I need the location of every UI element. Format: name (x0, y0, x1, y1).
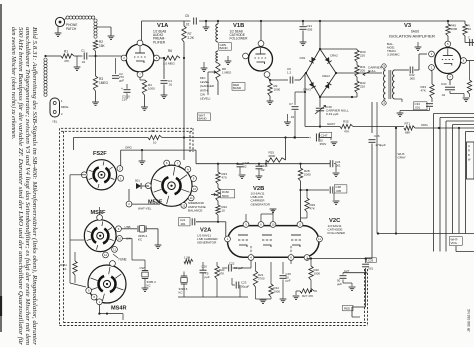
wire ring top to R chain (319, 48, 357, 50)
label wht band (197, 113, 210, 121)
svg-text:BAND: BAND (199, 117, 207, 121)
wire ring right to transformer (305, 72, 382, 74)
svg-text:ORG: ORG (421, 123, 429, 127)
pin V1B grid (243, 53, 249, 59)
resistor R33 (421, 70, 435, 102)
resistor R141 (60, 252, 77, 283)
label CR1 (300, 56, 306, 60)
capacitor C146 (237, 161, 250, 178)
wire b+ line (74, 136, 310, 138)
wire transformer bottom drop (377, 99, 395, 234)
diode D501 (129, 179, 148, 205)
label grn band (219, 43, 232, 51)
pin MS4R 1 (97, 299, 103, 305)
pins M53F (145, 160, 197, 208)
svg-text:.005: .005 (307, 27, 313, 31)
capacitor C23 (232, 278, 250, 297)
capacitor C31 (300, 20, 313, 46)
label CRA4 (322, 74, 330, 78)
tube V1B (249, 47, 273, 71)
svg-text:GRAY: GRAY (327, 122, 335, 126)
potentiometer R160 (211, 184, 235, 201)
svg-text:.005: .005 (336, 189, 342, 193)
ground below phone patch (55, 27, 62, 37)
tube V2 envelope (228, 226, 320, 258)
svg-text:C: C (468, 36, 470, 40)
resistor RT1 (404, 122, 415, 135)
resistor R1 (61, 50, 74, 64)
svg-text:ORG: ORG (125, 146, 133, 150)
capacitor C1 (81, 49, 87, 65)
svg-text:1.0 MEG: 1.0 MEG (163, 62, 176, 66)
svg-text:Bild 5.8.31: Aufbereitung des: Bild 5.8.31: Aufbereitung des SSB-Signal… (31, 27, 38, 346)
pin MS4F 12 (103, 252, 109, 258)
svg-text:CRA4: CRA4 (322, 74, 330, 78)
svg-text:350V: 350V (320, 142, 327, 146)
pin FS2F 2 (117, 166, 123, 172)
svg-text:MIKE: MIKE (61, 105, 68, 109)
wire pin8 drop (290, 260, 292, 264)
wire switch bus (196, 163, 330, 165)
svg-text:μμF: μμF (119, 78, 124, 82)
wire wht-yel (132, 203, 160, 205)
label mike pins (52, 99, 68, 124)
svg-text:2000: 2000 (274, 289, 281, 293)
pin V3 plate 5 (445, 41, 451, 47)
label C30 (326, 105, 349, 116)
switch FS2F (86, 160, 116, 190)
svg-text:FS2F: FS2F (93, 151, 107, 157)
filter box right edge (467, 142, 474, 179)
wire C29 junction to C27 (343, 272, 366, 274)
svg-text:1000: 1000 (314, 271, 321, 275)
svg-text:BAND: BAND (233, 86, 241, 90)
svg-text:.02: .02 (261, 168, 265, 172)
resistor R27 (293, 289, 317, 300)
svg-text:C27: C27 (344, 269, 350, 273)
svg-text:11: 11 (318, 237, 321, 241)
wire diamond top riser (319, 20, 321, 49)
wire pot bottom (208, 72, 218, 95)
svg-text:33: 33 (468, 27, 472, 31)
label phone patch (66, 23, 77, 31)
wire V3 pin5 stub (447, 41, 449, 44)
tube V3 (435, 48, 461, 74)
svg-text:+: + (309, 136, 311, 140)
svg-text:1500: 1500 (274, 87, 281, 91)
potentiometer R31 (355, 62, 366, 77)
svg-text:A: A (187, 167, 189, 171)
svg-text:CR1: CR1 (300, 56, 306, 60)
pin V1B cathode (264, 72, 270, 78)
pin V2 4 (248, 255, 254, 261)
label V1A (153, 23, 169, 44)
capacitor C26 (369, 134, 386, 147)
svg-text:68K: 68K (405, 131, 410, 135)
wire cw crystal top (123, 238, 146, 266)
svg-text:2.2K: 2.2K (188, 36, 195, 40)
label V2A (197, 228, 218, 245)
svg-text:47K: 47K (219, 271, 224, 275)
svg-text:μμF: μμF (286, 279, 291, 283)
wire v2a pins drop (226, 214, 246, 239)
pin V2 3 (304, 255, 310, 261)
svg-text:+: + (121, 87, 123, 91)
wire org from FS2F (121, 150, 196, 166)
svg-text:.01: .01 (441, 93, 446, 97)
label CRA3 (303, 88, 311, 92)
pin V3 6 (461, 58, 467, 64)
svg-text:.01: .01 (290, 115, 295, 119)
wire v2c cathode bus (307, 257, 372, 260)
ground under V2B label (261, 209, 276, 222)
pin V2 8 (288, 255, 294, 261)
resistor R29 (301, 189, 316, 218)
wire mike shield riser (44, 55, 61, 97)
wire V1A plate riser (141, 21, 143, 44)
svg-text:C22: C22 (229, 262, 235, 266)
capacitor C2 (112, 58, 124, 82)
connector MIKE (50, 98, 60, 117)
capacitor C4 (161, 57, 173, 99)
transformer T2 bal mod (382, 64, 395, 105)
label red band (232, 83, 245, 91)
pin V2 10 (270, 222, 276, 228)
pin V1A plate 6 (154, 55, 160, 61)
diode CRA3 (309, 82, 316, 88)
svg-text:V1A: V1A (157, 23, 169, 29)
wire gray bus (305, 127, 474, 130)
wire right nest f (466, 132, 474, 234)
pin V1A top (137, 40, 143, 46)
wire cathode to C6 (269, 79, 288, 81)
svg-text:1 MEG: 1 MEG (222, 70, 232, 74)
wire V3 plate right (466, 60, 474, 62)
label V2B (251, 186, 271, 206)
pin V2 5 (243, 222, 249, 228)
ground stub near C2 (74, 56, 81, 70)
label mic level (200, 76, 215, 101)
svg-text:10: 10 (193, 187, 197, 191)
label org (125, 146, 133, 150)
pin M53F 2 remote (126, 201, 132, 207)
resistor R4 (140, 77, 155, 110)
resistor R20 (215, 262, 225, 297)
wire R25 to b+ (285, 138, 287, 161)
ground top near C5 (203, 20, 210, 31)
wire wht-gray drop (395, 127, 397, 235)
svg-text:R: R (468, 149, 470, 153)
wire transformer secondary to C32 (395, 70, 410, 102)
label gray (327, 122, 335, 126)
svg-text:47K: 47K (421, 88, 426, 92)
svg-text:GRAY: GRAY (398, 156, 406, 160)
wire plate node down (183, 58, 185, 139)
shield dashed stub (190, 128, 193, 152)
label FS2F (93, 151, 107, 157)
svg-text:C1: C1 (81, 49, 85, 53)
svg-text:NULL: NULL (368, 69, 376, 73)
svg-text:11: 11 (113, 248, 116, 252)
wire C1 to V1A grid (89, 56, 122, 58)
wire c26 column (372, 102, 384, 259)
capacitor C6 (287, 67, 305, 84)
svg-text:C29: C29 (368, 258, 374, 262)
svg-text:CW: CW (140, 266, 145, 270)
svg-text:PATCH: PATCH (66, 27, 77, 31)
svg-text:μμF: μμF (337, 282, 342, 286)
svg-text:.005: .005 (409, 76, 415, 80)
svg-text:47K: 47K (310, 206, 315, 210)
wire shielded cable corner down (94, 19, 97, 38)
pin FS2F left (81, 172, 87, 178)
wire M53F to MS4F (99, 207, 101, 215)
wire ring bottom to R chain (319, 96, 357, 98)
label usb cw (125, 225, 132, 241)
svg-text:USB: USB (125, 225, 131, 229)
diode CRA4 (325, 82, 332, 88)
svg-text:FOLLOWER: FOLLOWER (230, 37, 249, 41)
label MS4R (111, 306, 127, 312)
node R2 bottom junction (94, 51, 96, 57)
crystal Y3 3393.6 (179, 272, 188, 298)
shield dashed left edge (60, 128, 64, 325)
svg-text:GENERATOR: GENERATOR (251, 202, 271, 206)
svg-text:CRA2: CRA2 (330, 54, 338, 58)
pin V1A grid 2 (121, 55, 127, 61)
ground below R3 (92, 91, 99, 105)
wire v2a bottom bus (178, 296, 248, 298)
wire ring left leg down (304, 73, 306, 127)
resistor R45 (446, 20, 458, 41)
wire R1 to C1 (74, 55, 83, 57)
capacitor C28 (301, 185, 347, 205)
label M53F (148, 200, 163, 206)
label org right (421, 123, 429, 127)
tube V1A (126, 44, 154, 72)
svg-text:501: 501 (135, 179, 140, 183)
tube V2 heater dashes (251, 246, 291, 254)
caption german text (rotated) (10, 27, 38, 346)
svg-text:10: 10 (153, 141, 157, 145)
capacitor C35 edge stub (468, 36, 472, 47)
capacitor C3 electrolytic (121, 84, 131, 102)
ground mid left a (201, 62, 208, 71)
label bal mod tran (387, 42, 400, 57)
wire b+ left bend (74, 138, 87, 151)
svg-text:220: 220 (360, 84, 365, 88)
pin V2 2 (297, 222, 303, 228)
svg-text:GENERATOR: GENERATOR (197, 241, 217, 245)
svg-text:10: 10 (271, 223, 275, 227)
svg-text:RT1: RT1 (405, 122, 411, 126)
ground mid left b (225, 56, 232, 64)
capacitor C20 (200, 262, 210, 297)
svg-text:B: B (468, 153, 470, 157)
svg-text:12: 12 (182, 203, 186, 207)
svg-text:LEVEL): LEVEL) (200, 97, 210, 101)
svg-text:C20: C20 (202, 265, 208, 269)
connector J phone patch (55, 17, 64, 26)
svg-text:1000: 1000 (148, 87, 155, 91)
svg-text:C7: C7 (289, 102, 293, 106)
pin V2 right (317, 236, 323, 242)
capacitor C29 (362, 258, 376, 274)
shield dashed right edge (365, 269, 368, 326)
svg-text:RED: RED (344, 307, 350, 311)
svg-text:JR 388 383 NC: JR 388 383 NC (467, 308, 471, 332)
diode CR1 (309, 57, 316, 63)
svg-text:MS4R: MS4R (111, 306, 127, 312)
resistor small 1.5 (184, 256, 193, 264)
svg-text:WHT-YEL: WHT-YEL (138, 207, 152, 211)
pin V1B top (258, 41, 264, 47)
capacitor C147 electrolytic (309, 132, 337, 145)
pin V1A cathode 7 (137, 72, 143, 78)
wire right nest e (458, 128, 460, 234)
scan left edge line (0, 4, 2, 332)
capacitor C27 (337, 269, 355, 290)
label wht-viol (449, 237, 462, 246)
resistor R2 (93, 40, 105, 51)
shield dashed top edge (61, 128, 192, 131)
resistor R35 (340, 120, 353, 134)
svg-text:BALANCE: BALANCE (188, 209, 202, 213)
svg-text:.01: .01 (168, 83, 173, 87)
ground on org wire (139, 149, 146, 164)
svg-text:2700: 2700 (258, 276, 265, 280)
resistor R28 (298, 164, 311, 222)
resistor R23 (216, 164, 228, 184)
label wht-yel (138, 207, 152, 211)
svg-text:YEL: YEL (52, 120, 58, 124)
pin MS4F top (97, 215, 103, 221)
svg-text:.001: .001 (415, 105, 421, 109)
svg-text:CRA3: CRA3 (303, 88, 311, 92)
capacitor C7 (289, 92, 305, 139)
wire right nest a (434, 114, 474, 252)
wire C30 to gray bus (319, 111, 321, 128)
svg-text:VIOL: VIOL (451, 241, 458, 245)
svg-text:TUNE: TUNE (118, 258, 127, 262)
svg-text:3.395MC: 3.395MC (387, 53, 400, 57)
capacitor C25 (280, 262, 292, 302)
svg-text:R6: R6 (168, 49, 172, 53)
svg-text:BAND: BAND (220, 46, 228, 50)
svg-text:ISOLATION AMPLIFIER: ISOLATION AMPLIFIER (389, 35, 436, 39)
switch MS4F (84, 220, 116, 252)
wire right nest c (446, 121, 474, 252)
pin MS4R 8 (91, 294, 97, 300)
wire pin4 drop (250, 260, 252, 268)
pin V3 grid 2 (429, 51, 435, 57)
svg-text:0-19 μμF: 0-19 μμF (326, 112, 339, 116)
svg-text:11: 11 (190, 196, 193, 200)
svg-text:220: 220 (360, 53, 365, 57)
wire red loop (352, 273, 366, 317)
svg-text:V3: V3 (404, 23, 412, 29)
svg-text:10: 10 (222, 208, 226, 212)
svg-text:200: 200 (360, 68, 365, 72)
label V3 (389, 23, 436, 39)
label carrier null left (363, 66, 383, 76)
potentiometer R8 mic level (212, 63, 232, 81)
pin MS4R 9 (86, 288, 92, 294)
resistor R6 (159, 49, 185, 66)
pin V3 1 (429, 65, 435, 71)
svg-text:V1B: V1B (233, 23, 244, 29)
svg-text:.001: .001 (180, 222, 186, 226)
label sideband amplitude balance (188, 201, 206, 213)
svg-text:R27 47K: R27 47K (302, 294, 313, 298)
wire MS4R bottom (98, 304, 123, 320)
svg-text:6AU6: 6AU6 (411, 30, 419, 34)
text corner code (467, 308, 471, 332)
wire org drop to switch bus (195, 150, 197, 164)
wire V1B plate riser (260, 20, 262, 41)
capacitor C5 (185, 14, 196, 27)
wire b+ drop to M53F (183, 138, 185, 161)
resistor R25 (266, 151, 286, 164)
pin MS4F 9 (116, 226, 122, 232)
capacitor C21 (179, 218, 226, 237)
wire diamond bottom to C30 (319, 97, 321, 107)
capacitor C33v3 (397, 102, 433, 117)
svg-text:1.5M: 1.5M (184, 256, 191, 260)
resistor R9 (267, 77, 281, 104)
svg-text:den zweiten Mischer (oben rech: den zweiten Mischer (oben rechts) zu erk… (10, 27, 17, 139)
wire right nest d (453, 125, 474, 234)
capacitor C22 (222, 260, 251, 272)
tube V2 internals (238, 235, 301, 247)
wire bottom right bus2 (456, 246, 474, 252)
resistor R22 (216, 201, 228, 222)
wire left switch column (70, 175, 86, 287)
svg-text:R1: R1 (64, 50, 68, 54)
crystal Y2 cw (140, 266, 157, 291)
svg-text:15K: 15K (99, 44, 106, 48)
svg-text:12V: 12V (122, 98, 127, 102)
label V1B (230, 23, 249, 41)
svg-text:.01: .01 (185, 23, 190, 27)
transformer T1 winding lower (216, 51, 218, 63)
svg-text:1000: 1000 (304, 172, 311, 176)
transformer T1 winding (216, 20, 219, 42)
svg-text:5000: 5000 (222, 194, 229, 198)
diode CRA2 (325, 57, 332, 64)
svg-text:μμF: μμF (205, 275, 210, 279)
resistor R34 (451, 24, 474, 45)
pin MS4F 10 (117, 236, 123, 242)
svg-text:1MEG: 1MEG (99, 81, 109, 85)
svg-text:R35: R35 (343, 120, 349, 124)
pin MS4F 11 (112, 247, 118, 253)
wire right nest b (440, 118, 474, 252)
svg-text:PLIFIER: PLIFIER (153, 40, 166, 44)
svg-text:FOLLOWER: FOLLOWER (328, 231, 346, 235)
capacitor C148 electrolytic (256, 164, 268, 180)
resistor R3 (93, 56, 108, 91)
label V2C (328, 218, 346, 235)
pin V2 6 (258, 222, 264, 228)
shield dashed bottom edge (60, 323, 368, 326)
pin V2 1 (225, 236, 231, 242)
svg-text:M53F: M53F (148, 200, 163, 206)
svg-text:470: 470 (222, 175, 227, 179)
svg-text:C34: C34 (441, 82, 447, 86)
svg-text:C5: C5 (185, 14, 189, 18)
svg-text:6800: 6800 (269, 154, 276, 158)
